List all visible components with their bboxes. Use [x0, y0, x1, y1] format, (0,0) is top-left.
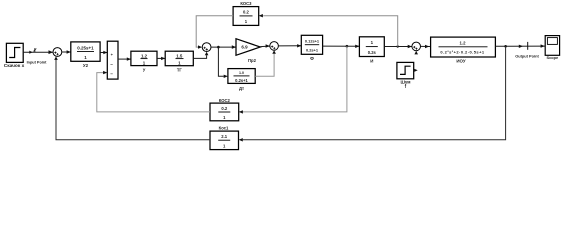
wire И to sum S5 [384, 45, 412, 48]
svg-text:0.2s+1: 0.2s+1 [235, 78, 248, 83]
wire step to sum S1 [23, 50, 53, 54]
svg-text:Скачок x: Скачок x [4, 63, 25, 69]
svg-text:2.1: 2.1 [221, 134, 227, 139]
svg-text:1.5: 1.5 [176, 53, 183, 58]
sum S1 [53, 48, 62, 57]
node branch to КОС3 [397, 45, 399, 47]
sum S4 [270, 42, 279, 51]
svg-text:Пр2: Пр2 [248, 58, 257, 63]
block И integrator 1/0.2s [359, 37, 384, 64]
wire ТГ to sum S3 [193, 52, 208, 59]
wire Кос1 to sum S1 [54, 56, 210, 139]
block Кос1 transfer 2.1/1 [210, 126, 239, 150]
svg-text:Дт: Дт [239, 86, 244, 91]
svg-text:КОС3: КОС3 [240, 1, 252, 6]
wire Ф to block И [323, 45, 360, 48]
svg-text:0.12s+1: 0.12s+1 [305, 39, 320, 44]
scope [545, 36, 559, 60]
svg-text:0.2: 0.2 [221, 106, 227, 111]
svg-text:6.9: 6.9 [241, 45, 248, 50]
wire branch to block Дт [218, 47, 228, 78]
wire branch to КОС2 [239, 46, 347, 113]
wire КОС2 to sum rect [97, 71, 210, 112]
svg-text:Input Point: Input Point [27, 61, 48, 65]
svg-text:ИОУ: ИОУ [456, 59, 465, 64]
step source Шум f [397, 62, 418, 89]
svg-text:У2: У2 [83, 63, 89, 68]
block Ф transfer 0.12s+1/0.2s+1 [301, 35, 322, 61]
wire КОС3 to sum S3 [196, 16, 233, 49]
block У transfer 1.2/1 [131, 51, 157, 72]
block КОС3 transfer 0.2/1 [233, 1, 259, 25]
svg-text:Ф: Ф [310, 56, 314, 61]
node branch to КОС2 [346, 45, 349, 48]
wire У to ТГ [157, 57, 165, 60]
wire S4 to block Ф [278, 44, 301, 47]
svg-text:0.2s+1: 0.2s+1 [306, 48, 319, 53]
output point marker [515, 42, 539, 59]
gain Пр2 [236, 39, 260, 64]
svg-text:Scope: Scope [547, 55, 560, 60]
sum S5 [412, 42, 421, 54]
svg-text:0.25s+1: 0.25s+1 [77, 46, 94, 51]
svg-text:КОС2: КОС2 [219, 98, 231, 103]
wire W2 to sum rect [100, 51, 107, 54]
svg-text:−: − [110, 71, 113, 76]
wire S1 to block W2 [62, 50, 71, 54]
wire S2 to block У [118, 57, 131, 60]
block ИОУ plant [431, 37, 496, 64]
wire plant to scope [495, 44, 545, 48]
wire branch to Кос1 [239, 46, 506, 141]
wire S5 to plant [421, 45, 431, 48]
node branch to Кос1 [504, 45, 507, 48]
svg-text:Кос1: Кос1 [219, 126, 229, 131]
block Дт transfer 1.0/0.2s+1 [228, 69, 255, 91]
svg-text:0.2²s²+2·0.2·0.5s+1: 0.2²s²+2·0.2·0.5s+1 [440, 49, 484, 54]
step source Скачок x [4, 43, 25, 69]
svg-text:0.2s: 0.2s [368, 50, 377, 55]
svg-text:У: У [143, 67, 146, 72]
sum rect S2 [107, 41, 118, 79]
svg-text:1.2: 1.2 [141, 53, 148, 58]
svg-text:1.0: 1.0 [239, 71, 244, 75]
sum S3 [202, 43, 211, 52]
block ТГ transfer 1.5/1 [165, 51, 193, 72]
wire Дт to sum S4 [255, 50, 276, 76]
svg-text:−: − [110, 62, 113, 67]
node branch to Дт [217, 46, 220, 49]
svg-text:ТГ: ТГ [177, 67, 183, 72]
wire S3 to gain [211, 45, 236, 49]
block КОС2 transfer 0.2/1 [210, 98, 239, 121]
svg-text:И: И [370, 58, 373, 63]
svg-text:1.2: 1.2 [460, 40, 467, 45]
wire gain to sum S4 [260, 44, 270, 47]
svg-text:0.2: 0.2 [243, 10, 249, 15]
svg-text:Output Point: Output Point [515, 53, 539, 58]
input point marker [27, 48, 48, 64]
block W2 transfer 0.25s+1/1 [71, 42, 100, 68]
wire branch to КОС3 [259, 14, 398, 47]
